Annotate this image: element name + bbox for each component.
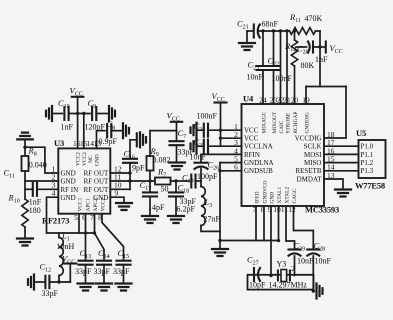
capacitor C19 100pF <box>191 175 195 188</box>
ground <box>212 249 228 256</box>
ground <box>246 31 248 42</box>
wire STROBE riser <box>286 31 288 104</box>
svg-text:C23: C23 <box>248 60 260 72</box>
svg-text:GND: GND <box>61 170 76 178</box>
svg-text:GND: GND <box>61 194 76 202</box>
svg-text:C7: C7 <box>178 128 187 140</box>
svg-text:C12: C12 <box>40 262 52 274</box>
wire pin14 to P1.3 <box>324 170 359 172</box>
svg-text:33pF: 33pF <box>42 289 59 298</box>
wire <box>201 226 220 232</box>
svg-text:GNDSUB: GNDSUB <box>244 167 273 175</box>
svg-text:10: 10 <box>273 205 281 214</box>
svg-text:10nH: 10nH <box>57 242 75 251</box>
mcu port U5 W77E58 body <box>359 140 386 178</box>
svg-text:STROBE: STROBE <box>285 112 291 133</box>
node <box>318 45 321 48</box>
wire to U3 pin 15 <box>83 114 85 149</box>
wire XTAL1 riser <box>278 206 280 241</box>
svg-text:100nF: 100nF <box>197 112 218 121</box>
svg-text:C29: C29 <box>294 241 306 253</box>
svg-text:GNDLNA: GNDLNA <box>244 159 274 167</box>
capacitor C13 33pF <box>79 261 93 265</box>
inductor L3 27nF <box>200 181 202 187</box>
svg-text:1nF: 1nF <box>315 55 328 64</box>
node <box>312 289 315 292</box>
svg-text:MISO: MISO <box>304 159 322 167</box>
wire RF OUT pins bus <box>110 172 130 174</box>
wire pin16 to P1.1 <box>324 153 359 155</box>
node <box>23 146 26 149</box>
svg-text:RF OUT: RF OUT <box>84 186 109 194</box>
svg-text:470K: 470K <box>305 14 323 23</box>
ground <box>142 216 158 223</box>
svg-text:GND: GND <box>61 178 76 186</box>
svg-text:27nF: 27nF <box>204 215 221 224</box>
ground <box>123 123 129 138</box>
wire to U3 pin 16 <box>77 114 79 149</box>
wire <box>111 130 121 132</box>
capacitor C23 10nF <box>262 31 264 66</box>
svg-text:R12: R12 <box>284 41 296 53</box>
node <box>277 239 280 242</box>
wire U3 pin6 riser to C13 <box>85 214 87 259</box>
svg-text:0.040: 0.040 <box>29 161 47 170</box>
wire U3 pin 3 <box>25 188 33 190</box>
wire <box>52 113 62 115</box>
svg-text:GND: GND <box>95 154 101 166</box>
svg-text:VCC2: VCC2 <box>76 152 82 166</box>
capacitor C25 10nF <box>197 145 203 147</box>
node <box>84 231 87 234</box>
svg-text:RESETB: RESETB <box>295 167 321 175</box>
ground <box>17 239 33 246</box>
capacitor C22 100nF <box>273 31 275 66</box>
capacitor C26 100pF <box>195 162 208 164</box>
svg-text:GND: GND <box>269 192 275 204</box>
wire U3 pin 4 to rail <box>47 197 95 233</box>
svg-text:C27: C27 <box>247 255 259 267</box>
svg-text:0.082: 0.082 <box>153 155 171 164</box>
svg-text:C28: C28 <box>314 241 326 253</box>
svg-text:50: 50 <box>161 184 169 193</box>
svg-text:GNDDIG: GNDDIG <box>304 112 310 133</box>
svg-text:VCC: VCC <box>330 43 343 55</box>
svg-text:XTAL2: XTAL2 <box>284 187 290 204</box>
svg-text:C20: C20 <box>297 44 309 56</box>
node <box>57 280 60 283</box>
svg-text:VCC1: VCC1 <box>77 197 83 211</box>
wire to U3 pin 1 <box>25 147 58 173</box>
svg-text:APC1: APC1 <box>85 198 91 211</box>
antenna terminal <box>17 133 33 140</box>
svg-text:100nF: 100nF <box>272 74 293 83</box>
wire <box>316 30 321 32</box>
svg-text:RCHGAP: RCHGAP <box>293 112 299 134</box>
capacitor (plate) <box>136 133 138 146</box>
ground <box>28 275 34 290</box>
wire U4 pin 5 <box>220 162 242 164</box>
svg-text:RF IN: RF IN <box>61 186 79 194</box>
wire U3 pin8 riser to C15 <box>102 214 124 259</box>
node <box>269 274 272 277</box>
svg-text:33pF: 33pF <box>94 267 111 276</box>
capacitor C17 14pF <box>149 181 151 193</box>
svg-text:NC: NC <box>88 155 94 163</box>
resistor R7 50 <box>155 178 171 185</box>
node <box>219 129 222 132</box>
svg-text:MC33593: MC33593 <box>305 205 339 215</box>
wire <box>96 113 107 115</box>
svg-text:7: 7 <box>90 213 94 222</box>
resistor R10 180 <box>22 199 28 227</box>
ground <box>140 132 146 147</box>
wire pin17 to P1.0 <box>324 145 359 147</box>
capacitor C10 <box>64 107 68 120</box>
crystal Y3 14.297MHz <box>281 270 287 282</box>
svg-text:IFED: IFED <box>254 191 260 203</box>
wire U4 pin 3 <box>208 145 242 147</box>
wire CAGC riser <box>294 206 314 248</box>
wire <box>171 180 190 182</box>
capacitor C18 33pF 6.2pF <box>175 181 177 193</box>
capacitor C29 10nF <box>289 248 301 250</box>
wire GNDVCO riser <box>263 206 265 241</box>
wire U3 pin 9 to ground <box>110 197 124 202</box>
wire IFED riser <box>255 206 257 241</box>
svg-text:5: 5 <box>74 213 78 222</box>
capacitor C24 100nF <box>197 129 203 131</box>
ground <box>96 284 112 291</box>
svg-text:GNDVCO: GNDVCO <box>262 180 268 203</box>
resistor R11 470K <box>290 28 316 35</box>
capacitor C15 33pF <box>117 261 131 265</box>
wire <box>24 139 26 156</box>
svg-text:CAGC: CAGC <box>292 188 298 203</box>
svg-text:RF OUT: RF OUT <box>84 178 109 186</box>
wire <box>259 30 290 32</box>
ground <box>191 123 197 138</box>
svg-text:MIXOUT: MIXOUT <box>272 111 278 133</box>
capacitor C27 10pF <box>253 268 255 281</box>
ground <box>191 139 197 154</box>
node <box>261 29 264 32</box>
ground <box>109 106 115 121</box>
wire <box>176 145 178 161</box>
resistor R8 0.040 <box>22 156 29 171</box>
svg-text:U3: U3 <box>54 138 64 148</box>
svg-text:180: 180 <box>29 206 41 215</box>
resistor R12 80K <box>294 31 296 40</box>
node <box>218 169 221 172</box>
wire pin18 <box>324 137 346 139</box>
wire <box>58 276 60 283</box>
wire U4 pin 2 <box>221 137 242 139</box>
svg-text:10nF: 10nF <box>315 257 332 266</box>
svg-text:RF OUT: RF OUT <box>84 170 109 178</box>
svg-text:C24: C24 <box>194 121 206 133</box>
power VCC <box>72 96 84 98</box>
wire GND column <box>219 163 221 248</box>
wire <box>129 163 131 173</box>
ground <box>116 203 132 210</box>
svg-text:10pF: 10pF <box>249 281 266 290</box>
capacitor C8 0.9pF <box>107 124 111 137</box>
capacitor C20 1nF <box>296 46 307 48</box>
svg-text:VCCDIG: VCCDIG <box>295 134 322 142</box>
ground <box>78 284 94 291</box>
svg-text:VCC: VCC <box>244 135 259 143</box>
wire VCC to VCCDIG <box>319 31 321 87</box>
ground <box>116 284 132 291</box>
svg-text:13: 13 <box>94 139 102 148</box>
wire U4 pin 1 <box>208 129 242 131</box>
wire <box>312 256 314 291</box>
capacitor C7 33pF <box>170 141 184 145</box>
node VCC junction <box>76 112 79 115</box>
ground <box>317 284 323 299</box>
svg-text:C11: C11 <box>4 168 15 180</box>
svg-text:P1.0: P1.0 <box>361 143 374 151</box>
svg-text:C10: C10 <box>58 98 70 110</box>
svg-text:MIXAGC: MIXAGC <box>261 111 267 133</box>
svg-text:XTAL1: XTAL1 <box>277 187 283 204</box>
power VCC <box>64 262 76 264</box>
node <box>174 179 177 182</box>
wire pin13 DMDAT <box>324 179 343 189</box>
power VCC <box>325 42 327 53</box>
wire CAIC riser <box>280 31 282 104</box>
wire <box>24 171 26 199</box>
capacitor C21 68nF <box>247 30 253 32</box>
capacitor C16 9pF <box>123 159 137 163</box>
svg-text:VCCLNA: VCCLNA <box>244 143 273 151</box>
capacitor C28 10nF <box>307 248 319 250</box>
svg-text:GND: GND <box>93 194 108 202</box>
op-amp U4 MC33593 body <box>242 104 325 206</box>
svg-text:P1.3: P1.3 <box>361 167 374 175</box>
node <box>128 171 131 174</box>
wire <box>50 281 71 283</box>
svg-text:33pF: 33pF <box>113 267 130 276</box>
wire XTAL2 riser <box>286 206 295 248</box>
inductor L1 10nH <box>58 233 60 238</box>
svg-text:14.297MHz: 14.297MHz <box>269 281 308 290</box>
capacitor C14 33pF <box>97 261 111 265</box>
svg-text:6: 6 <box>234 163 238 172</box>
wire U4 pin 4 <box>201 154 242 161</box>
wire <box>24 227 26 238</box>
svg-text:C25: C25 <box>194 137 206 149</box>
svg-text:68nF: 68nF <box>262 20 279 29</box>
svg-text:SCLK: SCLK <box>304 143 322 151</box>
svg-text:P1.1: P1.1 <box>361 151 374 159</box>
wire <box>196 180 202 182</box>
svg-text:0.9pF: 0.9pF <box>99 137 118 146</box>
svg-text:9pF: 9pF <box>132 164 145 173</box>
capacitor C12 33pF <box>45 276 49 289</box>
svg-text:10nF: 10nF <box>297 257 314 266</box>
svg-text:R10: R10 <box>8 193 20 205</box>
svg-text:C26: C26 <box>208 160 220 172</box>
svg-text:33pF: 33pF <box>75 267 92 276</box>
svg-text:80K: 80K <box>301 61 315 70</box>
wire <box>69 113 90 115</box>
ground <box>168 216 184 223</box>
op-amp U3 RF2173 body <box>58 148 110 213</box>
svg-text:W77E58: W77E58 <box>355 181 385 191</box>
svg-text:DMDAT: DMDAT <box>297 175 323 183</box>
capacitor C11 1nF <box>33 183 37 196</box>
capacitor C9 <box>92 107 96 120</box>
svg-text:11: 11 <box>281 205 288 214</box>
svg-text:1nF: 1nF <box>61 123 74 132</box>
svg-text:10nF: 10nF <box>247 73 264 82</box>
ground <box>335 190 351 197</box>
svg-text:C21: C21 <box>237 19 249 31</box>
wire <box>130 140 136 159</box>
wire U3 pin 2 <box>25 180 58 182</box>
svg-text:6.2pF: 6.2pF <box>177 204 196 213</box>
svg-text:RFIN: RFIN <box>244 151 260 159</box>
wire GND riser <box>270 206 272 276</box>
svg-text:U5: U5 <box>356 128 366 138</box>
svg-text:VCC: VCC <box>212 91 225 103</box>
svg-text:R11: R11 <box>289 12 301 24</box>
wire <box>200 169 202 182</box>
wire U3 pin7 riser to C14 <box>95 214 105 259</box>
svg-text:Y3: Y3 <box>277 260 287 269</box>
wire <box>34 281 45 283</box>
wire <box>130 180 155 182</box>
wire <box>97 131 106 149</box>
svg-text:12: 12 <box>288 205 296 214</box>
svg-text:2: 2 <box>291 264 295 273</box>
resistor R9 0.082 <box>149 171 151 182</box>
wire U4 pin 6 <box>220 170 242 172</box>
svg-text:U4: U4 <box>243 94 254 104</box>
value box <box>248 275 314 290</box>
svg-text:VCC2: VCC2 <box>82 152 88 166</box>
ground <box>46 106 52 121</box>
wire U3 pin5 riser <box>78 214 80 233</box>
svg-text:MOSI: MOSI <box>304 151 322 159</box>
wire W1 <box>220 240 279 242</box>
svg-text:VCC: VCC <box>244 127 259 135</box>
svg-text:CAIC: CAIC <box>279 120 285 133</box>
ground <box>169 163 185 170</box>
svg-text:P1.2: P1.2 <box>361 159 374 167</box>
wire pin15 to P1.2 <box>324 162 359 164</box>
